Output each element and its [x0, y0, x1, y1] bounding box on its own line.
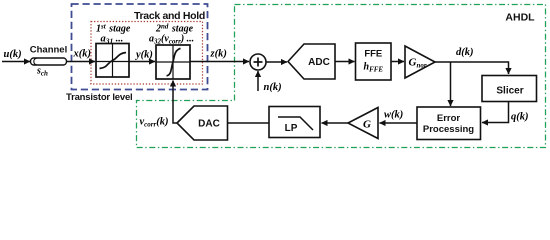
svg-text:z(k): z(k) [210, 49, 227, 60]
svg-text:DAC: DAC [198, 119, 220, 130]
svg-text:Slicer: Slicer [496, 86, 523, 97]
nonlinearity block stage 1 (sigmoid box) [96, 44, 129, 78]
wire w(k): Error Processing to G [380, 122, 418, 124]
wire LP to DAC [228, 122, 270, 124]
node Transistor level boundary (red dotted box) [91, 22, 203, 85]
wire G to LP [322, 122, 349, 124]
svg-text:G: G [363, 119, 371, 131]
wire ADC to FFE [335, 61, 355, 63]
svg-text:Error: Error [437, 113, 461, 124]
svg-text:y(k): y(k) [134, 50, 153, 61]
svg-text:LP: LP [285, 123, 298, 134]
wire q(k): Slicer to Error Processing [482, 102, 509, 123]
DAC block (left-pointing pentagon) [177, 106, 228, 140]
svg-text:d(k): d(k) [456, 47, 474, 58]
svg-text:u(k): u(k) [4, 49, 22, 60]
svg-text:q(k): q(k) [511, 112, 529, 123]
channel block (cylinder) [31, 58, 67, 65]
svg-text:Channel: Channel [30, 45, 67, 56]
svg-text:Track and Hold: Track and Hold [134, 10, 205, 22]
svg-text:ADC: ADC [308, 57, 330, 68]
wire vcorr feedback: DAC to stage2 [173, 81, 177, 124]
svg-text:x(k): x(k) [73, 49, 92, 60]
ADC block (pentagon) [288, 44, 335, 79]
svg-text:w(k): w(k) [384, 110, 403, 121]
wire d(k) branch down to Error Processing [450, 62, 452, 106]
nonlinearity block stage 2 (steep sigmoid box) [156, 45, 190, 79]
wire FFE to Gnor [391, 61, 404, 63]
wire y(k): stage1 to stage2 [129, 61, 155, 63]
svg-text:Transistor level: Transistor level [66, 92, 133, 103]
summer (adder circle) [250, 54, 266, 70]
node Track and Hold boundary (blue dashed box) [72, 4, 208, 90]
wire x(k): Channel to 1st stage [66, 61, 95, 63]
svg-text:n(k): n(k) [264, 82, 282, 93]
amplifier G (left-pointing triangle) [348, 108, 378, 139]
FFE block [356, 43, 392, 80]
svg-text:AHDL: AHDL [505, 12, 535, 24]
svg-text:Processing: Processing [423, 124, 474, 135]
wire z(k): stage2 to summer [190, 61, 249, 63]
amplifier Gnor (triangle) [405, 46, 435, 78]
svg-text:FFE: FFE [364, 49, 382, 60]
wire d(k): Gnor to Slicer corner [435, 62, 509, 74]
error processing block [417, 107, 481, 140]
wire n(k) noise input to summer [257, 71, 259, 91]
low-pass filter block LP [269, 107, 320, 138]
node AHDL boundary (green dash-dot box) [137, 5, 546, 148]
wire u(k) input to Channel [2, 61, 30, 63]
wire summer to ADC [266, 61, 287, 63]
slicer block [482, 76, 537, 102]
